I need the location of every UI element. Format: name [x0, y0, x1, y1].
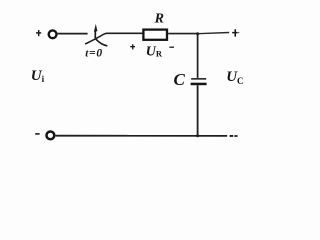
- label - of input terminal: [35, 133, 39, 135]
- svg-text:Ui: Ui: [31, 68, 45, 84]
- wire: junction down to capacitor: [197, 34, 199, 78]
- svg-text:t=0: t=0: [85, 48, 103, 60]
- wire: switch to resistor: [104, 32, 143, 35]
- input terminal (top-left circle): [49, 30, 57, 38]
- wire: resistor to junction: [168, 33, 198, 35]
- label + of U_R: [130, 44, 135, 49]
- svg-text:R: R: [154, 12, 164, 27]
- label + of U_C (top right): [232, 29, 239, 37]
- switch S (closing at t=0): [85, 24, 107, 46]
- svg-text:UR: UR: [146, 44, 163, 59]
- wire: junction to + mark: [198, 33, 230, 34]
- svg-text:C: C: [174, 70, 186, 89]
- label - of U_C (bottom right dashes): [230, 135, 238, 137]
- svg-text:UC: UC: [226, 69, 243, 86]
- return terminal (bottom-left circle): [47, 132, 55, 140]
- label + of input terminal: [36, 30, 41, 36]
- junction node (bottom): [196, 134, 199, 137]
- capacitor C: [191, 78, 207, 85]
- junction node (top): [196, 32, 199, 35]
- wire: terminal to switch: [58, 33, 88, 35]
- wire: capacitor down to bottom rail: [197, 85, 199, 136]
- bottom rail wire: [56, 135, 228, 137]
- resistor R: [143, 30, 167, 40]
- label - of U_R: [169, 46, 174, 48]
